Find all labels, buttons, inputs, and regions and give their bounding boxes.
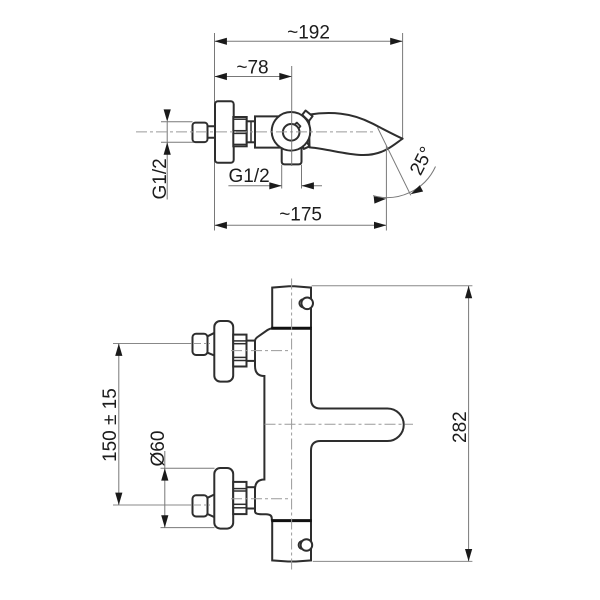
- wall flange (side view): [215, 101, 234, 163]
- upper connection: taper: [208, 333, 215, 356]
- tab bottom-right of valve: [301, 141, 310, 149]
- top cap: [272, 286, 311, 328]
- G1/2 bottom dimension line + leader: [228, 185, 281, 187]
- upper connection: wall flange: [214, 321, 233, 382]
- lower connection: wall flange: [214, 468, 233, 529]
- centerline: lower inlet axis: [231, 498, 291, 500]
- centerline: upper inlet axis: [231, 350, 291, 352]
- 25 degree slant line (through spout crease): [378, 128, 411, 196]
- dimension O60 line: [164, 451, 166, 528]
- G1/2 bottom dimension: extension lines: [281, 165, 283, 189]
- dimension 282 line: [468, 286, 470, 562]
- G1/2 left dimension extension lines: [161, 121, 193, 123]
- upper connection: stub: [247, 341, 256, 361]
- body left outline: [255, 328, 272, 520]
- centerline: vertical body axis: [291, 279, 293, 571]
- centerline: horizontal axis of inlet/valve: [136, 131, 375, 133]
- 25 degree annotation: vertical reference line: [385, 146, 387, 231]
- lower connection: stub: [247, 487, 256, 508]
- dimension ~175 line: [215, 224, 387, 226]
- valve outer circle: [272, 112, 311, 151]
- svg-text:G1/2: G1/2: [150, 158, 171, 199]
- G1/2 left dimension line: [166, 122, 168, 200]
- dimension ~192 line: [215, 40, 403, 42]
- pipe nipple cap (side view): [193, 123, 208, 143]
- upper connection: hex nut: [233, 335, 246, 367]
- bottom cap heavy parting line: [271, 519, 312, 522]
- outlet stub below valve: [282, 148, 302, 164]
- tab top-right of valve: [302, 111, 312, 122]
- valve inner circle notch: [294, 123, 300, 130]
- centerline: lower wall pipe axis dashes: [193, 504, 210, 506]
- hex nut (side view): [233, 117, 246, 146]
- dimension 150+-15 line: [118, 344, 120, 506]
- stub between nut and body: [247, 121, 256, 142]
- centerline: spout axis: [265, 423, 414, 425]
- dimension 282: extension lines: [312, 285, 473, 287]
- dimension ~78 line: [215, 76, 292, 78]
- 25 degree arc: [373, 167, 436, 198]
- wire: extension line right of ~192 (spout tip): [402, 33, 404, 139]
- dimension O60: extension lines: [161, 467, 215, 469]
- pipe neck: [208, 126, 216, 138]
- svg-text:150 ± 15: 150 ± 15: [100, 388, 121, 462]
- svg-text:282: 282: [450, 411, 471, 443]
- top cap screw: [299, 299, 307, 307]
- svg-text:~78: ~78: [236, 58, 268, 79]
- centerline: upper wall pipe axis dashes: [193, 343, 210, 345]
- centerline: upper wall pipe axis solid extension: [113, 343, 192, 345]
- thin vertical line through valve (78 ext): [291, 66, 293, 166]
- lower connection: taper: [208, 494, 215, 517]
- wire: extension line left (wall plane): [214, 33, 216, 231]
- svg-text:~192: ~192: [287, 23, 330, 44]
- body right outline with spout slot: [311, 328, 404, 520]
- svg-text:~175: ~175: [279, 205, 322, 226]
- upper connection: pipe cap: [193, 334, 208, 355]
- bottom cap: [272, 521, 311, 562]
- centerline: lower wall pipe axis solid extension: [113, 504, 192, 506]
- lower connection: pipe cap: [193, 495, 208, 516]
- svg-text:G1/2: G1/2: [229, 166, 270, 187]
- bottom cap screw: [299, 541, 307, 549]
- valve body rectangle (side view): [255, 116, 281, 147]
- svg-text:Ø60: Ø60: [148, 431, 169, 467]
- spout (side view): [309, 113, 403, 155]
- lower connection: hex nut: [233, 482, 246, 514]
- valve inner circle: [283, 124, 300, 141]
- top cap heavy parting line: [271, 327, 312, 330]
